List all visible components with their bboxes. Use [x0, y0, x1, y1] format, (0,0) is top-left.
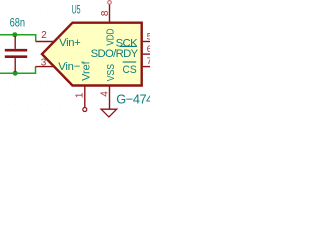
- svg-text:CS: CS: [123, 64, 138, 76]
- svg-text:Vin−: Vin−: [58, 61, 81, 73]
- svg-text:U5: U5: [72, 4, 81, 17]
- svg-text:6: 6: [147, 44, 150, 54]
- svg-text:5: 5: [147, 31, 150, 41]
- svg-text:8: 8: [100, 10, 111, 16]
- svg-text:G−474: G−474: [116, 92, 150, 107]
- svg-text:VSS: VSS: [106, 64, 117, 81]
- svg-text:7: 7: [147, 56, 150, 66]
- svg-text:Vref: Vref: [80, 60, 92, 81]
- svg-text:2: 2: [41, 30, 47, 41]
- svg-text:1: 1: [74, 92, 85, 98]
- svg-text:4: 4: [100, 91, 111, 97]
- svg-text:Vin+: Vin+: [59, 37, 81, 49]
- svg-text:SDO/RDY: SDO/RDY: [91, 48, 139, 60]
- svg-text:VDD: VDD: [106, 29, 117, 46]
- svg-text:3: 3: [41, 58, 47, 69]
- svg-text:68n: 68n: [10, 16, 26, 30]
